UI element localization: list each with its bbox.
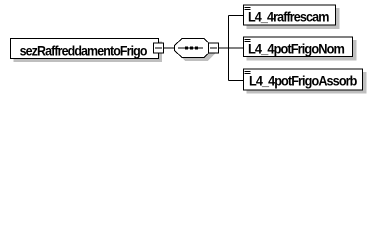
element L4_4raffrescam content icon [245, 7, 251, 10]
element sezRaffreddamentoFrigo shadow [14, 42, 163, 63]
element L4_4potFrigoNom content icon [245, 39, 251, 42]
element L4_4potFrigoNom shadow [247, 40, 357, 61]
element L4_4potFrigoNom box [244, 37, 353, 57]
element L4_4raffrescam box [244, 5, 336, 25]
sequence compositor octagon [175, 39, 212, 58]
sequence dot 2 [190, 46, 193, 49]
element L4_4potFrigoAssorb content icon [245, 71, 251, 74]
sequence dot 1 [185, 46, 188, 49]
wire box to sequence [159, 47, 175, 49]
svg-text:L4_4potFrigoNom: L4_4potFrigoNom [248, 41, 345, 57]
wire sequence to trunk and child 2 [219, 47, 244, 49]
wire trunk vertical [228, 16, 230, 81]
minus sign (parent button) [155, 47, 162, 49]
minus sign (sequence button) [210, 47, 217, 49]
svg-text:sezRaffreddamentoFrigo: sezRaffreddamentoFrigo [20, 42, 147, 58]
expand button (sequence) [209, 43, 219, 53]
sequence inner line [178, 47, 203, 49]
wire trunk to child 3 [229, 80, 244, 82]
element L4_4potFrigoAssorb shadow [247, 72, 367, 94]
element sezRaffreddamentoFrigo box [11, 39, 159, 59]
element L4_4raffrescam shadow [247, 8, 340, 29]
element L4_4potFrigoAssorb box [244, 69, 363, 90]
expand button (parent) [154, 43, 164, 53]
sequence compositor shadow [178, 42, 215, 61]
svg-text:L4_4raffrescam: L4_4raffrescam [248, 8, 329, 24]
sequence dot 3 [195, 46, 198, 49]
wire trunk to child 1 [229, 15, 244, 17]
svg-text:L4_4potFrigoAssorb: L4_4potFrigoAssorb [249, 73, 357, 89]
